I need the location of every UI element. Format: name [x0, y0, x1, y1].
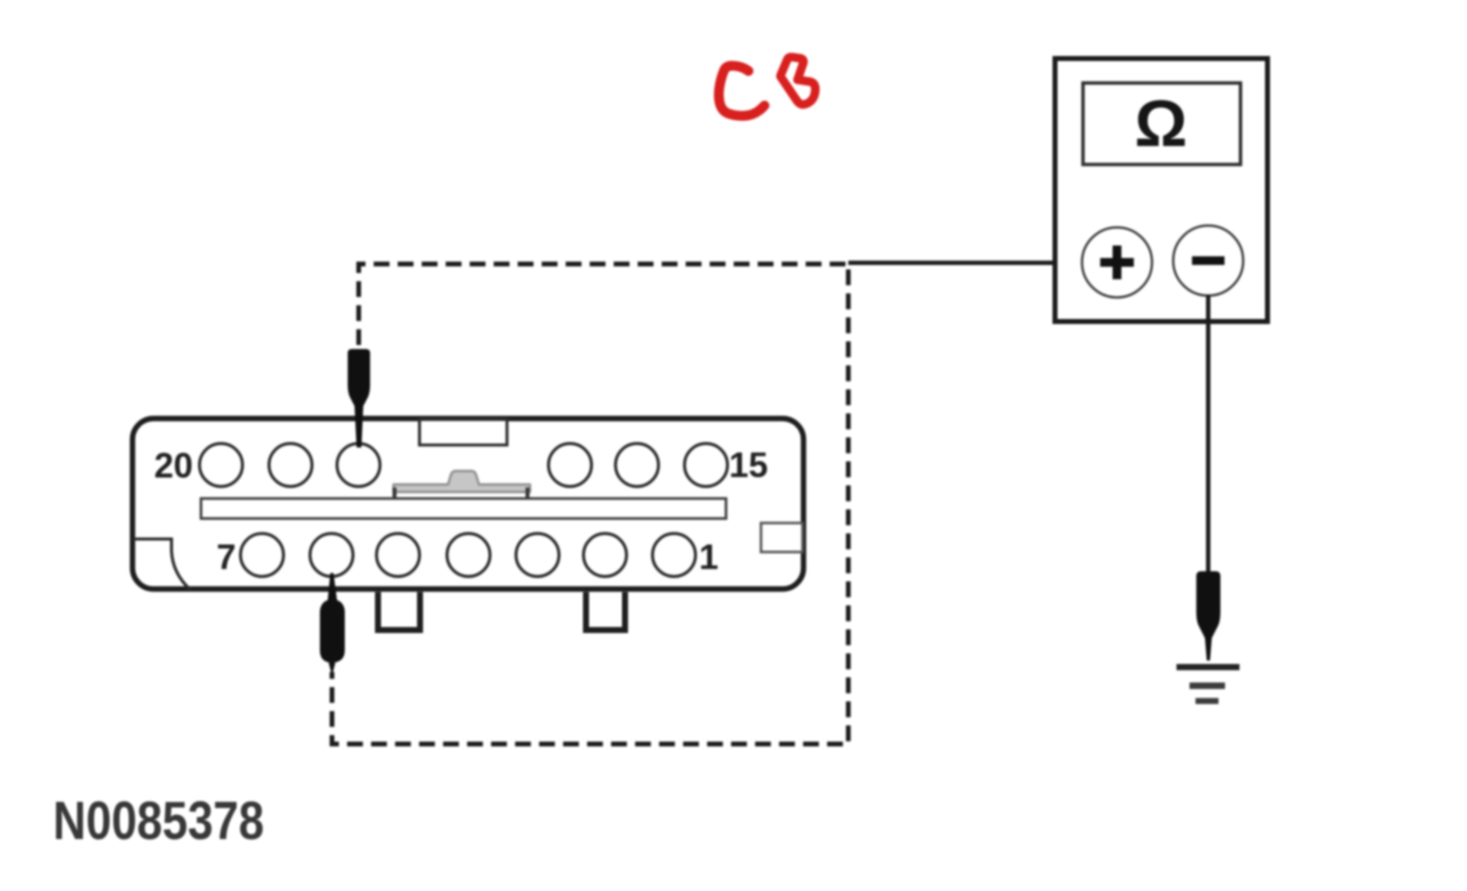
pin 1 cavity: [653, 534, 696, 577]
pin 15 cavity: [685, 444, 728, 487]
pin 19 cavity: [269, 444, 312, 487]
pin 6 cavity (probed): [310, 534, 353, 577]
svg-text:1: 1: [699, 538, 718, 577]
svg-text:20: 20: [154, 447, 193, 486]
svg-text:7: 7: [217, 538, 236, 577]
ohmmeter body: [1055, 59, 1268, 322]
svg-text:15: 15: [729, 446, 768, 485]
negative terminal: [1173, 226, 1243, 296]
connector J1 body: [133, 419, 804, 590]
probe arrow to ground: [1196, 571, 1220, 660]
pin 16 cavity: [616, 444, 659, 487]
red annotation 4: [781, 57, 816, 104]
pin 2 cavity: [584, 534, 627, 577]
ground symbol: [1177, 664, 1240, 704]
connector center slot: [201, 499, 726, 519]
pin 7 cavity: [241, 534, 284, 577]
dashed measurement loop: [332, 264, 848, 744]
pin 4 cavity: [447, 534, 490, 577]
wire: dashed loop to ohmmeter +: [848, 261, 1086, 265]
probe arrow into pin 6: [320, 573, 345, 663]
pin 17 cavity: [549, 444, 592, 487]
pin 5 cavity: [377, 534, 420, 577]
positive terminal: [1082, 227, 1152, 297]
svg-text:Ω: Ω: [1135, 86, 1188, 160]
connector latch ridge: [394, 471, 531, 498]
connector bottom-left notch: [133, 539, 190, 590]
connector top keying tab: [420, 420, 508, 446]
red annotation C: [719, 66, 765, 116]
wire: ohmmeter - to ground: [1206, 295, 1210, 573]
pin 18 cavity (probed): [337, 444, 380, 487]
svg-text:N0085378: N0085378: [53, 791, 264, 851]
ohmmeter display: [1083, 83, 1241, 165]
pin 20 cavity: [200, 444, 243, 487]
connector right-edge tab: [761, 523, 803, 552]
connector mounting tab left: [378, 592, 420, 630]
pin 3 cavity: [516, 534, 559, 577]
connector mounting tab right: [586, 592, 625, 630]
probe arrow into pin 18: [348, 349, 370, 448]
